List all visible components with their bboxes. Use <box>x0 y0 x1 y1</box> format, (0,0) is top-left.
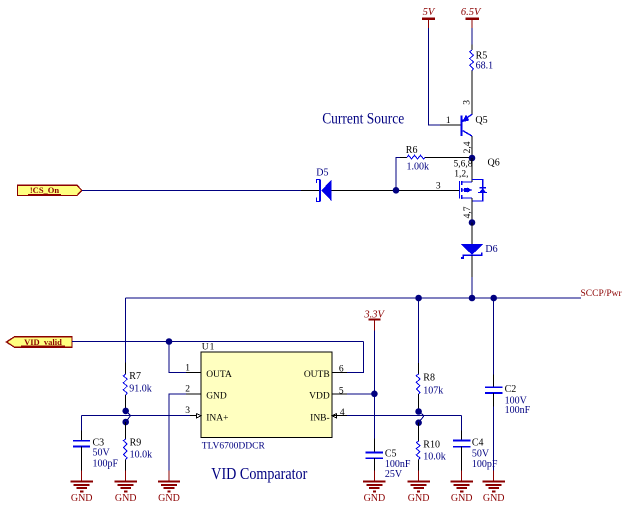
svg-text:VID_valid: VID_valid <box>24 337 62 347</box>
wire Q6 drain <box>471 158 473 182</box>
resistor R7 91.0k <box>123 363 151 411</box>
diode D5 (schottky) <box>316 168 331 202</box>
svg-text:Q5: Q5 <box>475 115 487 126</box>
svg-text:25V: 25V <box>385 469 403 480</box>
svg-text:100pF: 100pF <box>93 459 119 470</box>
wire D5 to gate node <box>332 189 460 191</box>
svg-text:3: 3 <box>185 406 190 416</box>
wire 3.3V to VDD and C5 <box>373 330 375 438</box>
svg-text:VDD: VDD <box>309 392 330 402</box>
capacitor C4 50V 100pF <box>453 431 498 471</box>
wire 5V rail to Q5 base <box>428 28 440 125</box>
power symbol 3.3V <box>363 309 385 330</box>
wire C4 branch <box>461 416 463 431</box>
capacitor C3 50V 100pF <box>73 431 118 471</box>
svg-text:INA+: INA+ <box>206 413 228 423</box>
wire divider jogs <box>126 411 131 422</box>
svg-text:GND: GND <box>158 493 180 504</box>
wire OUTA pin 1 <box>169 342 186 373</box>
node junction rail/C2 <box>490 295 497 302</box>
svg-text:91.0k: 91.0k <box>129 384 152 395</box>
wire rail down to R7 <box>125 298 127 363</box>
node junction rail/D6 <box>469 295 476 302</box>
svg-text:C5: C5 <box>385 448 397 459</box>
svg-text:50V: 50V <box>93 447 111 458</box>
node junction R7 bottom <box>122 408 129 415</box>
svg-text:3: 3 <box>436 181 441 191</box>
svg-text:5V: 5V <box>423 7 436 18</box>
off-page connector tag VID_valid <box>7 337 73 347</box>
svg-text:2,4: 2,4 <box>463 141 473 153</box>
svg-text:OUTA: OUTA <box>206 370 232 380</box>
node junction rail/R8 <box>415 295 422 302</box>
resistor R5 68.1 <box>470 45 493 115</box>
pin 4 input arrow <box>332 414 337 418</box>
transistor Q6 (N-MOSFET) <box>459 158 499 199</box>
svg-text:TLV6700DDCR: TLV6700DDCR <box>202 441 266 451</box>
ground (R9) <box>115 470 137 504</box>
svg-text:107k: 107k <box>423 385 443 396</box>
node junction R6/Q5/Q6 drain <box>469 155 476 162</box>
ground (C4) <box>451 470 473 504</box>
wire Q6 source <box>471 198 473 222</box>
wire C2 to GND <box>493 407 495 471</box>
svg-text:R6: R6 <box>406 145 418 156</box>
svg-text:5,6,8: 5,6,8 <box>454 160 473 170</box>
svg-text:1: 1 <box>185 363 190 373</box>
svg-text:GND: GND <box>408 493 430 504</box>
svg-text:SCCP/Pwr: SCCP/Pwr <box>581 289 623 299</box>
ground (C3) <box>71 470 93 504</box>
svg-text:R7: R7 <box>129 371 141 382</box>
svg-text:10.0k: 10.0k <box>130 449 153 460</box>
svg-text:D6: D6 <box>485 244 497 255</box>
off-page connector tag !CS_On <box>17 185 81 196</box>
diode D6 (schottky) <box>461 244 498 258</box>
ground (U1 pin2) <box>158 470 180 504</box>
power symbol 5V <box>422 7 436 28</box>
wire R6 branch from gate node <box>396 158 400 191</box>
svg-text:GND: GND <box>364 493 386 504</box>
Q6 body diode <box>472 180 487 201</box>
wire Q6 source to D6 <box>471 223 473 245</box>
svg-text:INB-: INB- <box>310 413 330 423</box>
node junction Q6 source / D6 <box>469 219 476 226</box>
svg-text:Current Source: Current Source <box>322 110 404 127</box>
wire OUTB pin 6 <box>332 371 347 373</box>
wire VDD pin 5 <box>332 393 347 395</box>
svg-text:R8: R8 <box>423 372 435 383</box>
ground (C5) <box>363 470 385 504</box>
svg-text:Q6: Q6 <box>488 158 500 169</box>
wire SCCP/Pwr rail <box>126 297 581 299</box>
resistor R10 10.0k <box>416 423 446 471</box>
node junction R9 top <box>122 419 129 426</box>
power symbol 6.5V <box>461 7 482 28</box>
wire !CS_On to D5 <box>82 189 301 191</box>
svg-text:C2: C2 <box>505 384 517 395</box>
svg-text:5: 5 <box>339 386 344 396</box>
svg-text:VID Comparator: VID Comparator <box>211 464 307 483</box>
svg-text:6.5V: 6.5V <box>461 7 482 18</box>
svg-text:68.1: 68.1 <box>476 61 494 72</box>
node junction VID/OUTA <box>166 338 173 345</box>
svg-text:GND: GND <box>451 493 473 504</box>
svg-text:3: 3 <box>462 100 472 105</box>
svg-text:U1: U1 <box>202 343 216 353</box>
op-amp U1 TLV6700DDCR (VID comparator) <box>201 343 332 452</box>
wire divider jogs right <box>419 412 424 423</box>
wire C3 branch <box>81 416 83 431</box>
wire Q5 collector <box>471 136 473 158</box>
node junction R10 top <box>415 419 422 426</box>
svg-text:1,2,: 1,2, <box>454 170 468 180</box>
svg-text:OUTB: OUTB <box>304 370 330 380</box>
wire rail to R8 <box>418 298 420 363</box>
svg-text:R10: R10 <box>423 439 440 450</box>
resistor R8 107k <box>416 363 443 412</box>
capacitor C2 100V 100nF <box>485 375 531 416</box>
wire D6 to SCCP/Pwr rail <box>471 255 473 277</box>
svg-text:GND: GND <box>71 493 93 504</box>
svg-text:1: 1 <box>446 116 451 126</box>
capacitor C5 100nF 25V <box>366 439 411 481</box>
transistor Q5 (PNP, current source) <box>461 114 487 136</box>
node junction VDD/3.3V <box>371 391 378 398</box>
wire Q5 base lead <box>440 124 460 126</box>
svg-text:100nF: 100nF <box>505 405 531 416</box>
wire INB- net <box>332 415 347 417</box>
svg-text:GND: GND <box>206 392 227 402</box>
ground (C2) <box>483 470 505 504</box>
svg-text:2: 2 <box>185 385 190 395</box>
node junction D5/R6/Q6 gate <box>393 187 400 194</box>
svg-text:GND: GND <box>483 493 505 504</box>
svg-text:C4: C4 <box>472 438 484 449</box>
pin 3 input arrow <box>196 414 201 418</box>
svg-text:10.0k: 10.0k <box>423 452 446 463</box>
node junction R8 bottom <box>415 408 422 415</box>
svg-text:50V: 50V <box>472 449 490 460</box>
svg-text:R9: R9 <box>130 438 142 449</box>
wire 6.5V to R5 <box>471 28 473 45</box>
svg-text:1.00k: 1.00k <box>407 161 430 172</box>
wire INA+ net <box>82 415 190 417</box>
svg-text:D5: D5 <box>316 168 328 179</box>
wire rail to C2 <box>493 298 495 375</box>
svg-text:4,7: 4,7 <box>463 206 473 218</box>
resistor R6 1.00k <box>400 145 472 172</box>
ground (R10) <box>407 470 429 504</box>
wire U1 pin2 to GND <box>186 393 201 395</box>
resistor R9 10.0k <box>123 422 152 470</box>
svg-text:4: 4 <box>340 408 345 418</box>
svg-text:6: 6 <box>339 365 344 375</box>
svg-text:GND: GND <box>115 493 137 504</box>
wire VID_valid net <box>72 341 363 343</box>
svg-text:!CS_On: !CS_On <box>30 185 60 195</box>
